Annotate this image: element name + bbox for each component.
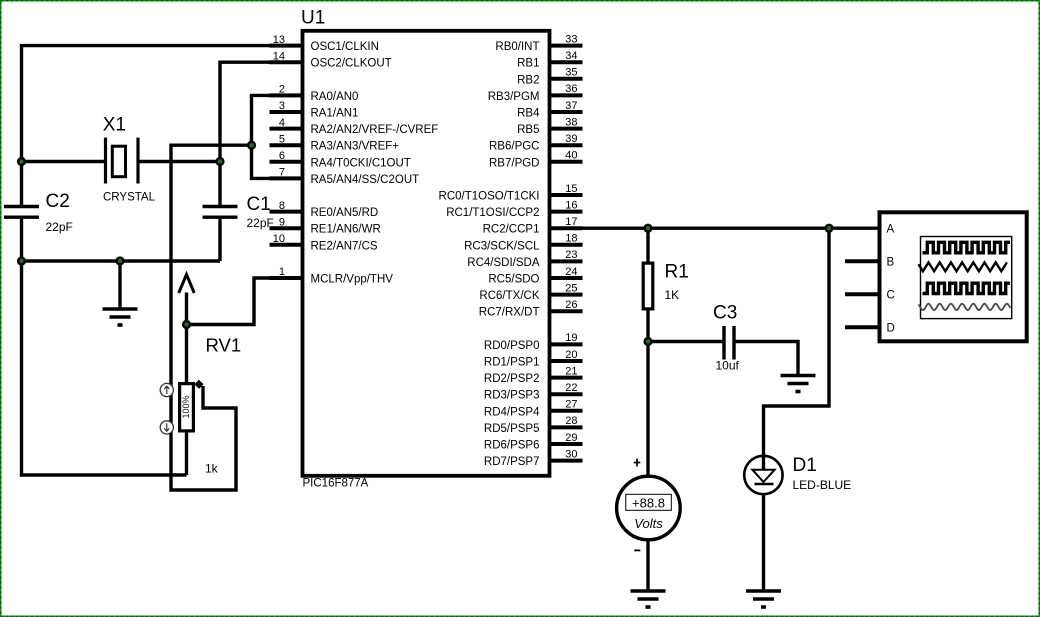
- wire crystal right lead: [140, 160, 221, 163]
- svg-text:14: 14: [273, 50, 285, 62]
- resistor R1 1K: [643, 262, 689, 309]
- svg-text:1k: 1k: [205, 462, 219, 476]
- wire RV1 bottom lead: [185, 433, 188, 476]
- voltmeter minus terminal mark: [634, 549, 640, 551]
- svg-text:OSC1/CLKIN: OSC1/CLKIN: [311, 41, 379, 53]
- ground (C3 net): [781, 376, 816, 392]
- scope input C stub: [845, 292, 879, 296]
- ground (LED cathode): [746, 591, 781, 607]
- wire OSC2 pin14 to crystal right node: [220, 62, 303, 161]
- wire RC2 net to oscilloscope: [550, 226, 879, 229]
- wire R1 top lead: [646, 228, 649, 263]
- svg-text:X1: X1: [103, 115, 126, 136]
- wire crystal left lead: [22, 160, 105, 163]
- wire ground tap: [118, 261, 121, 309]
- svg-text:RB5: RB5: [517, 124, 539, 136]
- pin 25 RC6/TX/CK: [479, 282, 582, 302]
- svg-text:RB0/INT: RB0/INT: [495, 41, 539, 53]
- svg-text:29: 29: [565, 432, 577, 444]
- pin 15 RC0/T1OSO/T1CKI: [439, 183, 583, 203]
- scope input D stub: [845, 325, 879, 329]
- svg-text:D1: D1: [793, 455, 817, 476]
- svg-text:38: 38: [565, 116, 577, 128]
- pin 28 RD5/PSP5: [484, 415, 583, 435]
- svg-text:35: 35: [565, 67, 577, 79]
- svg-text:22pF: 22pF: [46, 220, 73, 234]
- RV1 adjust down indicator: [160, 421, 173, 434]
- svg-text:1K: 1K: [665, 288, 680, 302]
- wire left rail C2 upper lead: [20, 162, 23, 205]
- svg-text:28: 28: [565, 415, 577, 427]
- pin 17 RC2/CCP1: [483, 216, 583, 236]
- pin 8 RE0/AN5/RD: [270, 200, 379, 219]
- junction crystal right / OSC2 / C1: [217, 158, 224, 165]
- svg-text:Volts: Volts: [634, 516, 663, 531]
- svg-text:18: 18: [565, 233, 577, 245]
- svg-text:15: 15: [565, 183, 577, 195]
- wire LED cathode to ground: [762, 484, 765, 591]
- svg-text:25: 25: [565, 282, 577, 294]
- capacitor C2 22pF: [4, 191, 73, 234]
- pin 1 MCLR/Vpp/THV: [270, 266, 394, 285]
- junction RC2 / LED branch: [826, 225, 833, 232]
- pin 16 RC1/T1OSI/CCP2: [446, 199, 582, 219]
- svg-text:RC5/SDO: RC5/SDO: [488, 274, 539, 286]
- svg-text:MCLR/Vpp/THV: MCLR/Vpp/THV: [311, 274, 394, 286]
- svg-text:RE1/AN6/WR: RE1/AN6/WR: [311, 224, 381, 236]
- svg-text:8: 8: [279, 200, 285, 212]
- pin 26 RC7/RX/DT: [479, 299, 583, 319]
- scope input B stub: [845, 259, 879, 263]
- svg-text:RD4/PSP4: RD4/PSP4: [484, 406, 540, 418]
- svg-text:26: 26: [565, 299, 577, 311]
- junction bracket / wiper net: [248, 142, 255, 149]
- svg-text:22: 22: [565, 382, 577, 394]
- svg-text:2: 2: [279, 84, 285, 96]
- svg-text:21: 21: [565, 365, 577, 377]
- voltmeter display: [617, 476, 681, 540]
- svg-text:19: 19: [565, 332, 577, 344]
- wire RC2 node to LED anode: [764, 228, 830, 470]
- junction bottom net / ground: [117, 258, 124, 265]
- svg-text:RB3/PGM: RB3/PGM: [488, 91, 540, 103]
- svg-text:RD2/PSP2: RD2/PSP2: [484, 373, 540, 385]
- svg-text:33: 33: [565, 33, 577, 45]
- pin 6 RA4/T0CKI/C1OUT: [270, 150, 411, 169]
- svg-text:23: 23: [565, 249, 577, 261]
- svg-text:RB2: RB2: [517, 74, 539, 86]
- pin 20 RD1/PSP1: [484, 349, 583, 369]
- pin 18 RC3/SCK/SCL: [464, 233, 582, 253]
- wire bottom net C2-C1: [22, 259, 221, 262]
- svg-text:RV1: RV1: [206, 335, 242, 356]
- pin 39 RB6/PGC: [489, 133, 583, 153]
- svg-text:RC2/CCP1: RC2/CCP1: [483, 224, 540, 236]
- waveform channel A square wave: [923, 242, 1011, 253]
- pin 3 RA1/AN1: [270, 100, 359, 119]
- pin 13 OSC1/CLKIN: [270, 34, 379, 53]
- wire node to C3 left plate: [648, 340, 723, 343]
- svg-text:RA4/T0CKI/C1OUT: RA4/T0CKI/C1OUT: [311, 157, 411, 169]
- svg-text:RD6/PSP6: RD6/PSP6: [484, 440, 540, 452]
- junction left rail / bottom net: [18, 258, 25, 265]
- svg-text:RA5/AN4/SS/C2OUT: RA5/AN4/SS/C2OUT: [311, 174, 420, 186]
- svg-text:24: 24: [565, 266, 577, 278]
- wire voltmeter minus to ground: [646, 540, 649, 591]
- potentiometer RV1 1k: [180, 335, 242, 476]
- capacitor C1 22pF: [203, 194, 274, 230]
- IC U1 PIC16F877A body: [301, 8, 550, 490]
- svg-text:R1: R1: [665, 262, 689, 283]
- svg-text:RE2/AN7/CS: RE2/AN7/CS: [311, 240, 378, 252]
- svg-text:17: 17: [565, 216, 577, 228]
- svg-text:PIC16F877A: PIC16F877A: [303, 478, 369, 490]
- pin 34 RB1: [517, 50, 582, 70]
- svg-text:RA2/AN2/VREF-/CVREF: RA2/AN2/VREF-/CVREF: [311, 124, 439, 136]
- svg-text:34: 34: [565, 50, 577, 62]
- svg-text:U1: U1: [301, 8, 325, 29]
- svg-text:3: 3: [279, 100, 285, 112]
- svg-text:C1: C1: [247, 194, 271, 215]
- svg-text:100%: 100%: [181, 395, 191, 418]
- svg-text:LED-BLUE: LED-BLUE: [793, 478, 852, 492]
- svg-text:B: B: [887, 256, 895, 268]
- svg-text:RC7/RX/DT: RC7/RX/DT: [479, 307, 540, 319]
- svg-text:RC0/T1OSO/T1CKI: RC0/T1OSO/T1CKI: [439, 191, 540, 203]
- wire left rail C2 lower lead: [20, 219, 23, 261]
- waveform channel B triangle wave: [919, 262, 1007, 271]
- pin 7 RA5/AN4/SS/C2OUT: [270, 167, 420, 186]
- junction R1 / C3 / voltmeter: [645, 338, 652, 345]
- LED D1 LED-BLUE: [744, 455, 851, 494]
- wire RA0-RA5 bracket: [252, 95, 303, 178]
- svg-text:5: 5: [279, 133, 285, 145]
- waveform channel C square wave: [923, 283, 1011, 293]
- pin 2 RA0/AN0: [270, 84, 359, 103]
- junction RC2 / R1: [645, 225, 652, 232]
- svg-text:RA3/AN3/VREF+: RA3/AN3/VREF+: [311, 141, 400, 153]
- pin 22 RD3/PSP3: [484, 382, 583, 402]
- svg-text:RA1/AN1: RA1/AN1: [311, 108, 359, 120]
- pin 36 RB3/PGM: [488, 83, 583, 103]
- svg-text:RD1/PSP1: RD1/PSP1: [484, 357, 540, 369]
- pin 40 RB7/PGD: [489, 150, 583, 170]
- ground (crystal caps net): [103, 309, 138, 325]
- svg-text:A: A: [887, 223, 895, 235]
- svg-text:40: 40: [565, 150, 577, 162]
- svg-text:9: 9: [279, 216, 285, 228]
- pin 24 RC5/SDO: [488, 266, 582, 286]
- svg-text:7: 7: [279, 167, 285, 179]
- wire C1 upper lead: [218, 162, 221, 205]
- svg-text:RD3/PSP3: RD3/PSP3: [484, 390, 540, 402]
- pin 9 RE1/AN6/WR: [270, 216, 381, 235]
- junction left rail / crystal: [18, 158, 25, 165]
- pin 37 RB4: [517, 100, 582, 120]
- svg-text:+88.8: +88.8: [632, 496, 665, 511]
- svg-text:27: 27: [565, 399, 577, 411]
- RV1 wiper arrow: [179, 275, 195, 325]
- svg-text:RB1: RB1: [517, 58, 539, 70]
- svg-text:4: 4: [279, 117, 285, 129]
- pin 29 RD6/PSP6: [484, 432, 583, 452]
- pin 21 RD2/PSP2: [484, 365, 583, 385]
- pin 27 RD4/PSP4: [484, 399, 583, 419]
- svg-text:CRYSTAL: CRYSTAL: [103, 192, 156, 204]
- voltmeter plus terminal mark: [634, 459, 641, 467]
- capacitor C3 10uf: [713, 303, 740, 373]
- svg-text:RD0/PSP0: RD0/PSP0: [484, 340, 540, 352]
- svg-text:RB4: RB4: [517, 108, 540, 120]
- wire C1 lower lead: [218, 219, 221, 261]
- svg-text:RA0/AN0: RA0/AN0: [311, 91, 359, 103]
- crystal X1: [103, 115, 156, 204]
- svg-text:37: 37: [565, 100, 577, 112]
- svg-text:RC3/SCK/SCL: RC3/SCK/SCL: [464, 240, 540, 252]
- junction RV1 arrow / MCLR wire: [183, 321, 190, 328]
- oscilloscope: [880, 212, 1027, 341]
- pin 19 RD0/PSP0: [484, 332, 583, 352]
- svg-text:D: D: [887, 322, 895, 334]
- pin 33 RB0/INT: [495, 33, 582, 53]
- pin 23 RC4/SDI/SDA: [467, 249, 582, 269]
- svg-text:22pF: 22pF: [247, 216, 274, 230]
- svg-text:C3: C3: [713, 303, 737, 324]
- pin 35 RB2: [517, 67, 582, 87]
- svg-text:36: 36: [565, 83, 577, 95]
- svg-text:39: 39: [565, 133, 577, 145]
- svg-text:6: 6: [279, 150, 285, 162]
- svg-text:10: 10: [273, 233, 285, 245]
- wire OSC1 pin13 to left rail: [22, 46, 303, 162]
- svg-text:RD7/PSP7: RD7/PSP7: [484, 456, 540, 468]
- wire RV1 top lead: [185, 325, 188, 384]
- svg-text:RC4/SDI/SDA: RC4/SDI/SDA: [467, 257, 540, 269]
- svg-text:RC1/T1OSI/CCP2: RC1/T1OSI/CCP2: [446, 207, 539, 219]
- pin 5 RA3/AN3/VREF+: [270, 133, 400, 152]
- wire left rail to RV1 bottom: [22, 261, 187, 475]
- wire bracket to RV1 wiper: [171, 145, 252, 490]
- svg-text:RB7/PGD: RB7/PGD: [489, 157, 540, 169]
- svg-text:OSC2/CLKOUT: OSC2/CLKOUT: [311, 58, 392, 70]
- svg-text:10uf: 10uf: [716, 359, 740, 373]
- svg-text:16: 16: [565, 199, 577, 211]
- wire MCLR pin1 to RV1 arrow node: [187, 278, 303, 325]
- svg-text:C: C: [887, 289, 895, 301]
- svg-text:20: 20: [565, 349, 577, 361]
- svg-text:13: 13: [273, 34, 285, 46]
- pin 38 RB5: [517, 116, 582, 136]
- svg-text:RB6/PGC: RB6/PGC: [489, 141, 540, 153]
- ground (voltmeter): [631, 591, 666, 607]
- waveform channel D sine wave: [919, 304, 1011, 310]
- pin 10 RE2/AN7/CS: [270, 233, 378, 252]
- RV1 adjust up indicator: [160, 383, 173, 396]
- pin 14 OSC2/CLKOUT: [270, 50, 392, 69]
- svg-text:C2: C2: [46, 191, 70, 212]
- svg-text:1: 1: [279, 266, 285, 278]
- wire node to voltmeter plus: [646, 342, 649, 478]
- svg-text:30: 30: [565, 448, 577, 460]
- wire R1 bottom lead: [646, 309, 649, 342]
- pin 4 RA2/AN2/VREF-/CVREF: [270, 117, 439, 136]
- oscilloscope screen: [921, 237, 1012, 319]
- svg-text:RC6/TX/CK: RC6/TX/CK: [479, 290, 539, 302]
- svg-text:RE0/AN5/RD: RE0/AN5/RD: [311, 207, 379, 219]
- svg-text:RD5/PSP5: RD5/PSP5: [484, 423, 540, 435]
- wire C3 right plate to ground: [736, 342, 799, 376]
- pin 30 RD7/PSP7: [484, 448, 583, 468]
